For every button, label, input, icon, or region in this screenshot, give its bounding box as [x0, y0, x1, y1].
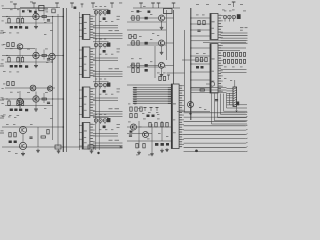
IC U1 internal label: [84, 22, 87, 34]
electrolytic capacitor: [166, 143, 169, 146]
resistor stub wires: [9, 56, 23, 58]
mid wires of U3: [93, 98, 118, 101]
resistor: [17, 19, 19, 23]
supply symbol: [139, 3, 143, 8]
ground under transistor: [160, 26, 164, 30]
capacitor: [29, 137, 32, 138]
wires rail to U6: [190, 47, 210, 88]
electrolytic capacitor C20: [237, 14, 241, 19]
diode arrow below connector: [235, 107, 238, 112]
electrolytic capacitor: [145, 17, 148, 20]
fourth row resistor b: [137, 68, 139, 72]
labels near transistor: [131, 36, 152, 40]
junction nodes: [6, 16, 53, 17]
channel 4 wire lower: [2, 146, 123, 148]
wire across under Q30: [177, 111, 210, 113]
electrolytic capacitor C10: [103, 90, 106, 93]
labels resistor network: [224, 66, 243, 69]
paper background: [0, 0, 250, 159]
electrolytic capacitor: [161, 143, 164, 146]
top rail wire left page: [20, 7, 60, 9]
diode D1: [206, 82, 215, 86]
electrolytic capacitor: [10, 65, 13, 68]
capacitor: [47, 20, 50, 21]
left pin stubs of U1: [79, 17, 82, 36]
electrolytic capacitor: [74, 7, 77, 9]
junction nodes: [6, 98, 53, 99]
transistor vertical wire: [35, 9, 37, 25]
supply symbol: [55, 3, 59, 8]
resistor: [42, 98, 46, 100]
wires at transistor: [130, 18, 174, 26]
labels near transistor: [131, 58, 152, 62]
left vertical bus line B2: [65, 8, 67, 152]
net labels right edge: [240, 27, 248, 30]
resistor: [21, 58, 23, 62]
IC U6 pin ticks: [218, 45, 222, 92]
electrolytic capacitor: [10, 26, 13, 29]
wire mid cluster: [127, 133, 152, 135]
wires at transistor: [130, 65, 174, 73]
labels above U2: [95, 38, 106, 41]
left margin text: [2, 88, 4, 104]
supply symbol: [32, 3, 36, 8]
resistor: [143, 144, 145, 148]
relay box top right page: [164, 9, 173, 14]
transistor Q3a: [30, 85, 36, 91]
labels above U1: [95, 5, 106, 8]
IC U3 pin ticks: [90, 88, 94, 116]
output bus of U4: [93, 143, 123, 148]
channel signal wire: [2, 16, 63, 18]
electrolytic capacitor C6: [103, 50, 106, 53]
IC U7 pin ticks: [180, 85, 184, 147]
right page transistor Q10: [159, 15, 165, 21]
electrolytic capacitor: [25, 26, 28, 29]
transistor Q3b: [47, 86, 52, 91]
trimmer row below bus A: [138, 108, 159, 113]
IC U1 body: [82, 14, 90, 39]
IC U5 internal label: [212, 21, 215, 34]
sub wire row 3: [127, 66, 166, 68]
mid wires of U4: [93, 134, 118, 137]
connector CN1: [233, 87, 237, 107]
wire y73 right page: [167, 72, 185, 74]
resistor: [137, 16, 139, 20]
extra net labels U3: [99, 93, 113, 96]
wires at transistor: [130, 43, 174, 51]
vertical wire V7: [154, 46, 156, 78]
wire feed above U1: [93, 8, 109, 10]
gap label B: [3, 83, 5, 86]
ground: [165, 148, 168, 152]
left pin stubs of U2: [79, 50, 82, 75]
electrolytic capacitor C14: [103, 126, 106, 129]
resistor: [47, 130, 49, 134]
mid wires of U2: [93, 58, 118, 61]
vertical wire V5: [78, 12, 80, 150]
secondary channel wire: [5, 61, 53, 63]
top left wire row: [2, 8, 48, 10]
power transistor Q7: [19, 126, 26, 133]
capacitor C21: [215, 100, 218, 101]
capacitor: [129, 135, 132, 136]
resistor: [21, 101, 23, 105]
labels above U4: [95, 113, 106, 116]
IC U3 internal label: [84, 96, 87, 111]
vertical stub at x44: [43, 93, 45, 103]
secondary channel wire: [5, 22, 53, 24]
wire feed above U2: [93, 41, 109, 43]
supply symbol: [91, 3, 95, 8]
fourth row label: [131, 63, 134, 66]
IC U6 body: [210, 44, 218, 93]
electrolytic capacitor: [25, 109, 28, 112]
vertical stub at x20: [19, 48, 21, 65]
cluster row under bus A - more: [130, 113, 160, 118]
electrolytic capacitor: [19, 65, 22, 68]
IC U4 body: [82, 123, 90, 150]
net labels right of U1: [109, 16, 121, 31]
label row above channel: [10, 48, 48, 49]
sub wire row 2: [127, 44, 166, 46]
left margin text: [2, 45, 4, 61]
supply symbol: [70, 3, 74, 8]
supply symbol right page: [232, 2, 236, 7]
trimmer cluster above U4: [94, 119, 106, 124]
transistor vertical wire: [35, 48, 37, 64]
wire pair below U5: [191, 41, 246, 43]
bottom cluster wires: [127, 121, 171, 152]
vertical stub at x44: [43, 50, 45, 60]
electrolytic capacitor C13: [107, 118, 110, 122]
label row above channel: [10, 92, 48, 93]
electrolytic capacitor: [14, 141, 17, 144]
IC U1 pin ticks: [90, 16, 94, 38]
supply symbol: [172, 3, 176, 8]
label: [143, 5, 146, 8]
electrolytic capacitor C1: [107, 10, 110, 14]
connector CN1 top wire: [234, 80, 236, 87]
labels above U3: [95, 78, 106, 81]
vertical wire channel 4b: [22, 134, 24, 143]
gap label: [3, 43, 5, 46]
vertical stub at x44: [43, 11, 45, 21]
resistor R31: [55, 145, 61, 149]
wires U6 bottom to connector: [191, 88, 227, 93]
left pin stubs of U3: [79, 90, 82, 115]
cluster left of U6: [196, 53, 207, 69]
resistor: [132, 16, 134, 20]
channel transistor: [33, 96, 39, 102]
electrolytic capacitor: [9, 141, 12, 144]
transistor Q30 on rail: [188, 102, 194, 108]
channel transistor: [33, 52, 39, 58]
top right text marks: [196, 4, 243, 10]
channel 3 pre-stage wire: [5, 87, 55, 89]
resistor: [41, 136, 45, 138]
left pin stubs of U4: [79, 126, 82, 147]
transistor Q2a: [17, 44, 23, 50]
junction nodes: [6, 55, 53, 56]
trimmer cluster above U3: [94, 83, 106, 88]
left edge connector stubs: [0, 30, 4, 133]
resistor: [9, 133, 11, 137]
second transistor: [49, 53, 55, 59]
electrolytic capacitor: [14, 65, 17, 68]
resistor: [149, 123, 151, 127]
ground channel 4b: [36, 149, 40, 153]
resistor: [137, 63, 139, 67]
fourth row capacitor: [145, 69, 148, 72]
wire above bus A: [127, 84, 171, 86]
bottom cluster labels: [128, 119, 160, 156]
mini bus from U5 to right edge: [221, 33, 248, 43]
resistor: [8, 19, 10, 23]
top rail right page: [133, 7, 180, 9]
IC U4 internal label: [84, 130, 87, 143]
ground under channel transistor: [34, 25, 38, 29]
electrolytic capacitor: [25, 65, 28, 68]
electrolytic capacitor: [22, 10, 25, 12]
resistor: [8, 101, 10, 105]
IC U2 body: [82, 47, 90, 78]
resistor R60: [200, 89, 204, 91]
vertical wire channel 4: [37, 127, 39, 147]
ground: [137, 151, 141, 155]
resistor: [136, 144, 138, 148]
top left labels: [10, 2, 48, 13]
resistor: [155, 123, 157, 127]
cluster row under bus A - resistors: [128, 104, 142, 112]
resistor: [137, 41, 139, 45]
wire feed above U3: [93, 81, 109, 83]
bottom cluster transistor Q20: [131, 124, 137, 130]
resistor: [8, 58, 10, 62]
scatter labels mid left: [44, 22, 52, 119]
resistor: [42, 16, 46, 18]
net labels right of U2: [109, 49, 121, 70]
wire at second transistor: [51, 60, 53, 64]
wire row right page upper: [127, 29, 167, 31]
trimmer cluster above U1: [94, 11, 106, 16]
electrolytic capacitor: [130, 131, 133, 133]
transistor vertical wire: [35, 92, 37, 108]
labels near transistor: [131, 11, 152, 15]
channel signal wire: [2, 55, 63, 57]
ground under transistor: [160, 73, 164, 77]
channel signal wire: [2, 98, 63, 100]
IC U6 internal label: [212, 58, 215, 81]
channel transistor: [33, 13, 39, 19]
vertical wire V5b: [95, 10, 97, 150]
ground blob bottom right: [195, 150, 198, 153]
trimmer cluster above U2: [94, 43, 106, 48]
cluster left of U5: [196, 15, 205, 32]
resistor R32: [88, 145, 94, 149]
supply symbol: [151, 3, 155, 8]
electrolytic capacitor: [14, 109, 17, 112]
resistor stub wires: [9, 99, 23, 101]
electrolytic capacitor: [10, 109, 13, 112]
supply symbol: [13, 4, 17, 9]
supply symbol: [157, 3, 161, 8]
label top x119: [119, 2, 122, 5]
capacitor: [47, 102, 50, 103]
arrow at wire end: [120, 146, 123, 148]
resistor network right of U6: [223, 53, 245, 64]
label row below channel: [3, 32, 19, 33]
electrolytic capacitor: [14, 26, 17, 29]
wires rail to U5: [190, 17, 210, 36]
electrolytic capacitor C22: [236, 102, 239, 106]
wire feed above U4: [93, 116, 109, 118]
ground channel 4: [21, 152, 25, 156]
supply symbol: [110, 3, 114, 8]
net labels right of U4: [109, 124, 121, 141]
junction dots on bus B1: [63, 16, 65, 148]
channel 4 wire upper: [2, 126, 63, 128]
vertical wire V8: [173, 10, 175, 84]
output bus of U2: [93, 72, 123, 77]
electrolytic capacitor C2: [103, 17, 106, 20]
extra net labels U1: [99, 20, 113, 23]
vertical wire V5c: [98, 10, 100, 150]
output bus of U1: [93, 33, 123, 38]
electrolytic capacitor C5: [107, 43, 110, 47]
extra net labels U4: [99, 128, 113, 131]
resistor gap A: [7, 43, 9, 47]
right vertical rail R1: [190, 8, 192, 120]
ground under channel transistor: [34, 64, 38, 68]
electrolytic capacitor: [19, 26, 22, 29]
labels above U5: [224, 10, 246, 13]
cluster extra labels: [139, 127, 168, 137]
resistor: [14, 133, 16, 137]
electrolytic capacitor: [137, 10, 140, 12]
ground blob at left bus bottom: [97, 152, 99, 154]
cluster above bus A: [157, 73, 170, 81]
IC U4 pin ticks: [90, 124, 94, 148]
IC U2 pin ticks: [90, 48, 94, 76]
resistor: [166, 123, 168, 127]
electrolytic capacitor: [29, 10, 32, 12]
left vertical bus line B1: [62, 8, 64, 152]
vertical wire V9: [184, 30, 186, 112]
extra net labels U2: [99, 53, 113, 56]
mid wires of U1: [93, 25, 118, 28]
resistor: [161, 123, 163, 127]
small boxes second row: [129, 35, 136, 39]
IC U7 body: [171, 84, 179, 149]
small box near x52: [52, 9, 55, 13]
net labels right of U3: [109, 89, 121, 110]
bottom cluster transistor Q21: [143, 132, 149, 138]
ground under transistor: [160, 51, 164, 55]
vertical stub at x20: [19, 9, 21, 26]
electrolytic capacitor: [148, 11, 151, 13]
right page transistor Q11: [159, 40, 165, 46]
IC U5 body: [210, 14, 218, 40]
electrolytic capacitor: [34, 11, 37, 13]
vertical wire V3: [52, 16, 54, 140]
IC U2 internal label: [84, 56, 87, 71]
electrolytic capacitor: [145, 42, 148, 45]
wire y60 right page: [182, 59, 205, 61]
ground under R32: [90, 149, 94, 153]
ground: [160, 149, 164, 153]
IC U3 body: [82, 87, 90, 118]
sub wire row 1: [127, 21, 166, 23]
ground under Q30: [189, 108, 191, 115]
ground under channel transistor: [34, 107, 38, 111]
resistor: [132, 63, 134, 67]
bus B right edge ticks: [246, 112, 248, 152]
left margin text: [2, 6, 4, 22]
wires at resistor network: [221, 48, 247, 73]
IC U7 internal label: [173, 103, 176, 133]
capacitor: [47, 59, 50, 60]
label row below channel: [3, 115, 19, 116]
resistor gap B: [7, 82, 9, 86]
electrolytic capacitor C9: [107, 83, 110, 87]
labels channel 4: [6, 124, 33, 154]
scatter labels right page: [152, 33, 232, 110]
label row above channel: [10, 9, 48, 10]
fourth row resistor: [132, 68, 134, 72]
resistor gap A2: [12, 43, 14, 47]
secondary channel wire: [5, 105, 53, 107]
vertical wire V4: [57, 14, 59, 146]
right page transistor Q12: [159, 62, 165, 68]
transformer box top left: [39, 6, 44, 11]
electrolytic capacitor: [155, 143, 158, 146]
electrolytic capacitor: [19, 109, 22, 112]
bus A horizontal lines into U7: [133, 87, 171, 104]
resistor: [17, 58, 19, 62]
second transistor: [17, 98, 23, 104]
electrolytic capacitor: [145, 64, 148, 67]
connector CN1 stubs: [227, 89, 234, 105]
power transistor Q8: [19, 142, 26, 149]
vertical wire V6: [165, 10, 167, 60]
resistor stub wires: [9, 17, 23, 19]
gap labels above channel 4: [2, 116, 16, 118]
data bus B horizontal lines: [184, 113, 246, 152]
ground: [150, 152, 154, 156]
resistor: [21, 19, 23, 23]
output bus of U3: [93, 112, 123, 117]
vertical stub at x20: [19, 91, 21, 108]
resistor gap B2: [12, 82, 14, 86]
resistor: [132, 41, 134, 45]
fan wires from bus to right edge: [212, 94, 248, 125]
channel 2 pre-stage wire: [5, 48, 35, 50]
label row below channel: [3, 71, 19, 72]
IC U5 pin ticks: [218, 15, 222, 38]
wire at second transistor: [19, 105, 21, 109]
resistor: [42, 55, 46, 57]
ground under R31: [57, 149, 61, 153]
resistor: [17, 101, 19, 105]
trimmer cluster above U5: [223, 15, 235, 21]
small supply stub: [81, 4, 84, 8]
